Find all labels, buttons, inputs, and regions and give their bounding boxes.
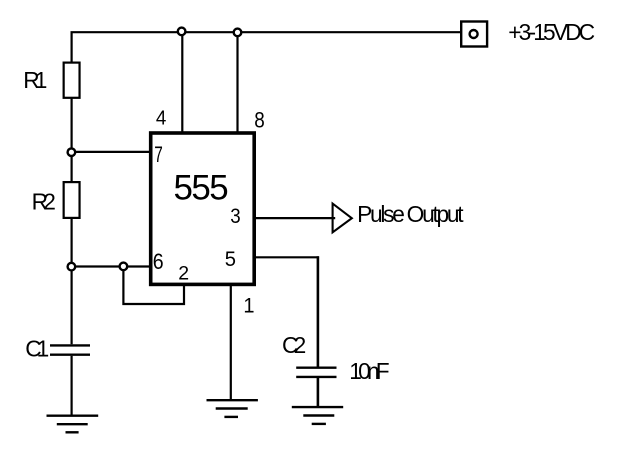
node E junction [234, 29, 242, 37]
terminal J1 +3-15VDC [461, 22, 487, 47]
wire node B to C1 [70, 267, 72, 345]
node A junction [68, 148, 76, 156]
wire pin 3 output [254, 217, 335, 219]
svg-text:555: 555 [174, 169, 229, 208]
ground GND2 [207, 400, 258, 417]
resistor R2 [64, 182, 80, 218]
svg-text:6: 6 [153, 250, 164, 274]
wire R2 to node B [70, 218, 72, 267]
capacitor C1 [50, 345, 90, 354]
wire node C to pin 6 [123, 265, 151, 267]
wire node C to pin 2 [123, 267, 184, 305]
svg-text:2: 2 [178, 262, 189, 284]
node D junction [178, 28, 186, 36]
wire C2 to ground [317, 378, 320, 407]
svg-text:C1: C1 [25, 335, 49, 361]
wire C1 to ground [70, 356, 72, 416]
wire R1 to node A [70, 98, 72, 152]
wire pin 4 to rail [181, 32, 183, 132]
svg-text:R1: R1 [23, 67, 47, 93]
svg-text:Pulse Output: Pulse Output [357, 201, 464, 227]
ground GND1 [47, 416, 99, 433]
svg-text:7: 7 [154, 143, 163, 167]
svg-text:R2: R2 [32, 189, 56, 215]
node C junction [120, 263, 128, 271]
IC U1 555 body [151, 133, 255, 284]
capacitor C2 [296, 368, 336, 377]
svg-text:5: 5 [225, 247, 236, 271]
wire node A to pin 7 [72, 151, 151, 153]
wire top power rail [72, 32, 461, 62]
svg-text:1: 1 [243, 294, 254, 318]
svg-text:+3-15VDC: +3-15VDC [508, 19, 595, 45]
pulse output arrow [333, 204, 352, 233]
wire pin 1 to ground [230, 284, 232, 400]
svg-text:10nF: 10nF [349, 358, 389, 384]
svg-text:3: 3 [230, 205, 240, 228]
svg-text:4: 4 [156, 107, 167, 130]
svg-text:C2: C2 [282, 332, 306, 358]
resistor R1 [64, 63, 80, 98]
wire node A to R2 [70, 152, 72, 182]
wire node B to node C [72, 265, 124, 267]
wire pin 5 to C2 [254, 256, 319, 258]
svg-text:8: 8 [254, 108, 265, 133]
wire pin 8 to rail [236, 32, 238, 132]
node B junction [68, 263, 76, 271]
ground GND3 [292, 407, 343, 424]
